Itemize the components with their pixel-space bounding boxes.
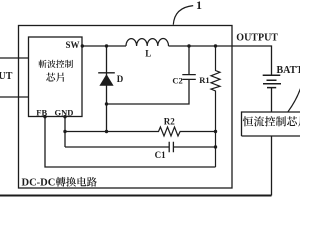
pin junction GND: [63, 115, 66, 118]
capacitor C2: [107, 46, 196, 104]
node: C1 to R1 column junction: [214, 145, 217, 148]
svg-text:UT: UT: [0, 71, 13, 82]
node: GND to R2 row junction: [63, 130, 66, 133]
wire: SW output rail to OUTPUT corner: [82, 46, 272, 75]
svg-text:BATTERY: BATTERY: [277, 65, 301, 76]
node: diode to C2-return junction: [105, 102, 108, 105]
svg-text:R2: R2: [164, 117, 175, 127]
resistor R1 (vertical zigzag): [211, 46, 220, 167]
svg-text:L: L: [145, 49, 151, 59]
inductor L (4 loops in series on SW rail): [126, 39, 169, 46]
wire: battery minus to chip U2: [271, 88, 273, 112]
node: C2 tap on SW rail: [187, 44, 190, 47]
chip U1 label line1 (chopper control chip): [38, 60, 46, 68]
svg-text:R1: R1: [199, 75, 209, 85]
wire: input lower to chip left: [0, 96, 29, 98]
enclosure box: DC-DC converter circuit: [19, 26, 233, 189]
wire: bottom ground return rail: [0, 195, 272, 197]
wire: FB feedback rail: [45, 117, 216, 168]
chip U1 label line2: [46, 73, 55, 82]
chip U2 label (constant-current control chip): [243, 116, 253, 126]
leader line for reference numeral 1: [173, 6, 193, 25]
diode D (cathode up): [98, 72, 115, 74]
chip U2 box (constant-current control chip, cut off at right): [242, 112, 303, 136]
svg-text:C1: C1: [155, 150, 166, 160]
svg-text:1: 1: [196, 0, 202, 12]
wire: GND pin branch: [64, 117, 66, 148]
svg-text:D: D: [117, 74, 124, 84]
chip U1 box (chopper control chip): [29, 37, 83, 117]
svg-text:OUTPUT: OUTPUT: [236, 33, 278, 44]
svg-text:SW: SW: [65, 40, 79, 50]
node: diode tap on SW rail: [105, 44, 108, 47]
enclosure label CJK part (DC-DC converter circuit): [56, 177, 66, 187]
wire: diode branch vertical: [106, 46, 108, 132]
leader line for numeral at right edge (cut off): [288, 89, 301, 112]
svg-text:C2: C2: [172, 76, 182, 86]
svg-text:DC-DC: DC-DC: [22, 178, 56, 189]
pin junction FB: [43, 115, 46, 118]
pin junction SW: [81, 44, 84, 47]
resistor R2 (horizontal zigzag row): [65, 127, 216, 136]
node: diode to R2 row junction: [105, 130, 108, 133]
capacitor C1 (horizontal row): [65, 142, 216, 152]
wire: input upper to chip left: [0, 57, 29, 59]
battery BATT: [263, 75, 281, 87]
wire: chip U2 bottom to ground return rail: [271, 136, 273, 196]
node: R2 to R1 column junction: [214, 130, 217, 133]
node: R1 tap on SW rail: [214, 44, 217, 47]
